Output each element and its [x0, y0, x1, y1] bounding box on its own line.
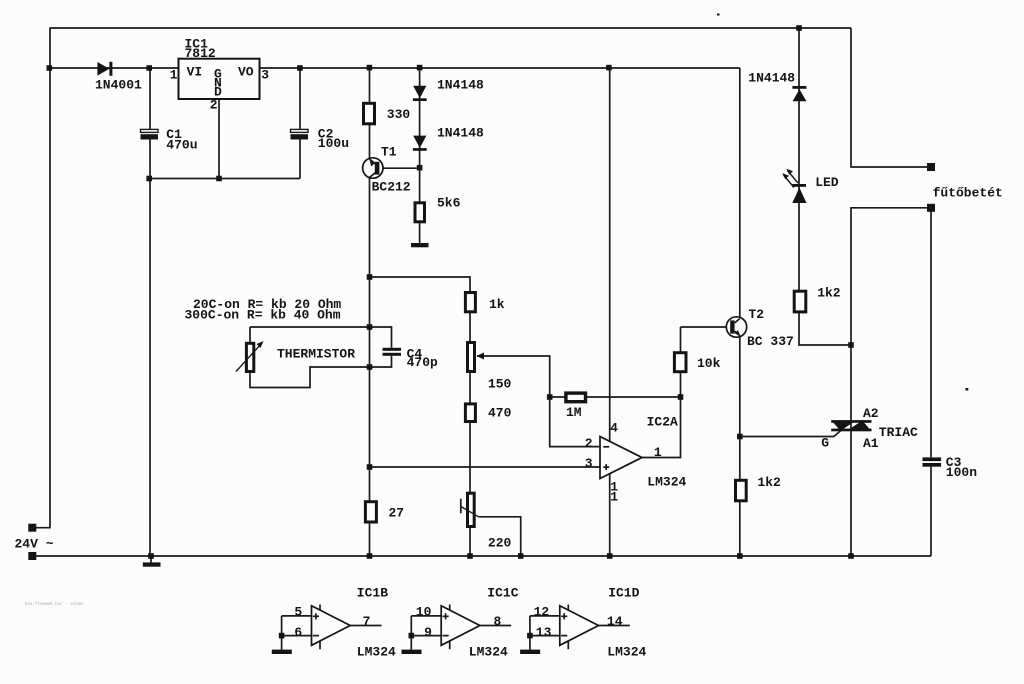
svg-text:100u: 100u — [318, 136, 349, 151]
svg-text:1N4148: 1N4148 — [437, 126, 484, 141]
svg-text:G: G — [821, 435, 829, 450]
svg-text:1: 1 — [654, 445, 662, 460]
svg-text:3: 3 — [261, 67, 269, 82]
svg-text:T1: T1 — [381, 144, 397, 159]
svg-text:A2: A2 — [863, 406, 879, 421]
svg-text:6: 6 — [294, 625, 302, 640]
svg-text:27: 27 — [389, 506, 405, 521]
svg-text:470u: 470u — [166, 137, 197, 152]
svg-text:1: 1 — [610, 489, 618, 504]
svg-text:LM324: LM324 — [357, 645, 396, 660]
svg-text:330: 330 — [387, 107, 411, 122]
svg-text:BC 337: BC 337 — [747, 334, 794, 349]
svg-text:1M: 1M — [566, 405, 582, 420]
svg-text:14: 14 — [607, 614, 623, 629]
svg-text:4: 4 — [610, 421, 618, 436]
svg-text:12: 12 — [534, 605, 550, 620]
svg-text:THERMISTOR: THERMISTOR — [277, 346, 355, 361]
svg-text:1k: 1k — [489, 297, 505, 312]
svg-text:24V ~: 24V ~ — [15, 537, 54, 552]
svg-text:10k: 10k — [697, 356, 721, 371]
svg-text:7: 7 — [363, 614, 371, 629]
svg-text:IC1C: IC1C — [487, 585, 518, 600]
svg-text:IC1D: IC1D — [608, 585, 639, 600]
svg-text:LM324: LM324 — [469, 645, 508, 660]
svg-text:LED: LED — [815, 175, 839, 190]
svg-text:2: 2 — [210, 98, 218, 113]
svg-text:VO: VO — [238, 65, 254, 80]
svg-text:1k2: 1k2 — [817, 286, 841, 301]
svg-text:TRIAC: TRIAC — [879, 425, 918, 440]
svg-text:100n: 100n — [946, 465, 977, 480]
svg-text:5: 5 — [294, 605, 302, 620]
svg-text:bss.freeweb.hu/ · schem: bss.freeweb.hu/ · schem — [25, 602, 83, 607]
svg-text:1N4001: 1N4001 — [95, 78, 142, 93]
svg-text:LM324: LM324 — [647, 475, 686, 490]
svg-text:3: 3 — [585, 456, 593, 471]
svg-text:5k6: 5k6 — [437, 196, 461, 211]
svg-text:470: 470 — [488, 406, 512, 421]
svg-text:VI: VI — [187, 65, 203, 80]
svg-text:LM324: LM324 — [607, 645, 646, 660]
svg-text:1k2: 1k2 — [757, 475, 781, 490]
svg-text:2: 2 — [585, 436, 593, 451]
svg-text:fűtőbetét: fűtőbetét — [933, 186, 1003, 201]
svg-text:1: 1 — [170, 67, 178, 82]
svg-text:9: 9 — [424, 625, 432, 640]
svg-text:IC2A: IC2A — [647, 414, 678, 429]
svg-text:1N4148: 1N4148 — [748, 70, 795, 85]
svg-text:T2: T2 — [749, 307, 765, 322]
svg-text:1N4148: 1N4148 — [437, 78, 484, 93]
svg-text:IC1B: IC1B — [357, 585, 388, 600]
svg-text:13: 13 — [536, 625, 552, 640]
svg-text:8: 8 — [494, 614, 502, 629]
svg-text:BC212: BC212 — [372, 180, 411, 195]
svg-text:300C-on R= kb 40 Ohm: 300C-on R= kb 40 Ohm — [185, 307, 341, 322]
svg-text:A1: A1 — [863, 436, 879, 451]
svg-text:470p: 470p — [407, 355, 438, 370]
svg-text:10: 10 — [416, 605, 432, 620]
svg-text:150: 150 — [488, 377, 512, 392]
svg-text:7812: 7812 — [185, 46, 216, 61]
svg-text:220: 220 — [488, 536, 512, 551]
